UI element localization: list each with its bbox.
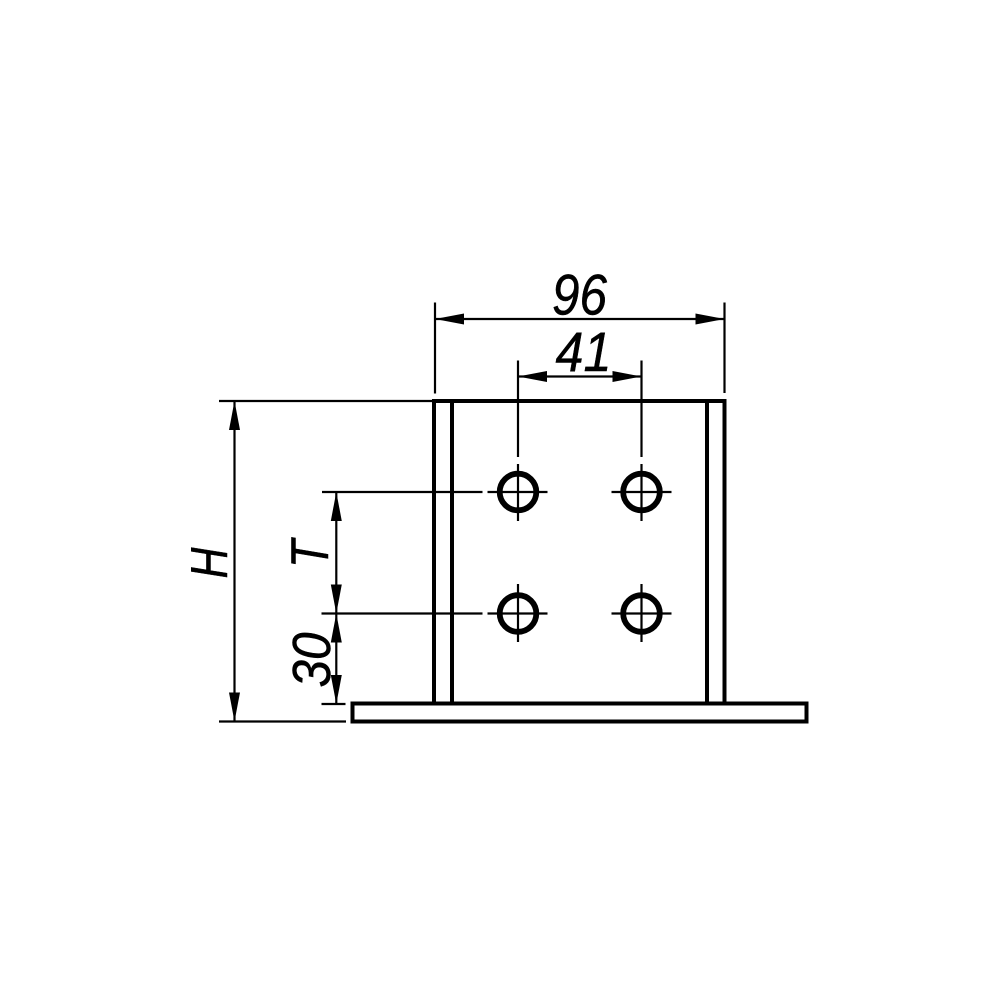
dim H line [233, 401, 235, 722]
body left inner flange line [450, 401, 454, 704]
hole upper-left [500, 474, 537, 511]
dim 30 arrow bottom [331, 675, 342, 704]
base plate [353, 704, 807, 722]
svg-text:41: 41 [556, 320, 612, 383]
hole lower-right [623, 595, 660, 632]
dim H extension line top [219, 400, 433, 402]
dim 96 arrow left [435, 314, 464, 325]
body left outer flange line [432, 399, 436, 704]
dim 41 arrow right [613, 371, 642, 382]
dim 30 bottom tick [322, 703, 346, 705]
dim T arrow bottom [331, 585, 342, 614]
hole lower-left [500, 595, 537, 632]
dim 30 arrow top [331, 614, 342, 643]
centerline vertical upper-left hole (also 41 extension) [517, 361, 519, 458]
centerline horizontal lower row (T bottom / 30 top extension) [322, 612, 483, 614]
dim 96 arrow right [696, 314, 725, 325]
centerline vertical lower-right hole [640, 584, 642, 642]
dim H arrow bottom [229, 693, 240, 722]
body right inner flange line [705, 401, 709, 704]
dim 96 extension line right [723, 303, 725, 394]
dim H extension line bottom [219, 720, 346, 722]
dim 41 line [518, 375, 642, 377]
centerline vertical upper-right hole (also 41 extension) [640, 361, 642, 458]
dim 41 arrow left [518, 371, 547, 382]
body right outer flange line [723, 399, 727, 704]
centerline vertical lower-left hole [517, 584, 519, 642]
dim T line [335, 492, 337, 614]
dim 96 line [435, 318, 725, 320]
dim 96 extension line left [434, 303, 436, 394]
dim 30 line [335, 614, 337, 705]
dim T arrow top [331, 492, 342, 521]
centerline horizontal upper row (T top extension) [322, 491, 483, 493]
hole upper-right [623, 474, 660, 511]
dim H arrow top [229, 401, 240, 430]
svg-text:H: H [181, 547, 239, 578]
svg-text:T: T [281, 537, 340, 568]
body top edge [432, 399, 727, 403]
svg-text:96: 96 [552, 264, 607, 328]
svg-text:30: 30 [282, 633, 342, 688]
